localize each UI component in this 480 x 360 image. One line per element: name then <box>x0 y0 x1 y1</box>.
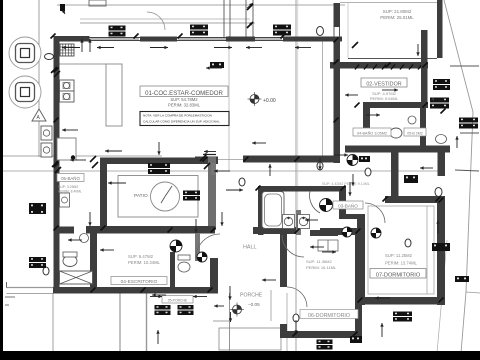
svg-text:SUP: 6.47M2: SUP: 6.47M2 <box>128 254 154 259</box>
svg-text:PATIO: PATIO <box>134 193 148 199</box>
svg-text:−0.05: −0.05 <box>248 302 260 307</box>
svg-text:04-ESCRITORIO: 04-ESCRITORIO <box>121 279 158 285</box>
svg-text:HALL: HALL <box>243 245 257 251</box>
svg-text:SUP: 21.80M2: SUP: 21.80M2 <box>383 9 412 14</box>
svg-text:NOTA: VER LA COMPRA DE PORLEMA: NOTA: VER LA COMPRA DE PORLEMASTICION <box>143 114 212 118</box>
svg-text:PERIM: 16.11ML: PERIM: 16.11ML <box>306 265 337 270</box>
svg-text:06-DORMITORIO: 06-DORMITORIO <box>308 313 350 319</box>
svg-text:05-BAÑO: 05-BAÑO <box>61 176 80 181</box>
svg-text:SUP: 11.36M2: SUP: 11.36M2 <box>306 259 332 264</box>
svg-text:PERIM: 13.74ML: PERIM: 13.74ML <box>385 261 418 266</box>
svg-text:07-DORMITORIO: 07-DORMITORIO <box>376 272 421 278</box>
svg-text:03-BAÑO: 03-BAÑO <box>338 202 358 208</box>
svg-text:PERIM: 8.40ML: PERIM: 8.40ML <box>58 190 82 194</box>
svg-text:SUP: 4.42M2 PERIM: 9.14ML: SUP: 4.42M2 PERIM: 9.14ML <box>322 182 370 186</box>
svg-text:PERIM: 10.34ML: PERIM: 10.34ML <box>128 260 161 265</box>
svg-text:CALCULAR COMO DIFERENCIA UN SU: CALCULAR COMO DIFERENCIA UN SUP. ADICION… <box>143 120 220 124</box>
svg-text:SUP: 11.25M2: SUP: 11.25M2 <box>385 253 413 258</box>
svg-text:05-PORCHE: 05-PORCHE <box>168 298 188 302</box>
svg-text:PORCHE: PORCHE <box>240 293 263 299</box>
svg-text:PERIM: 25.01ML: PERIM: 25.01ML <box>380 15 414 20</box>
svg-text:PERIM: 9.04ML: PERIM: 9.04ML <box>370 96 399 101</box>
svg-text:01-COC.ESTAR-COMEDOR: 01-COC.ESTAR-COMEDOR <box>145 90 223 97</box>
svg-text:+0.00: +0.00 <box>263 98 276 104</box>
svg-text:SUP: 3.25M2: SUP: 3.25M2 <box>58 185 78 189</box>
svg-text:02-VESTIDOR: 02-VESTIDOR <box>366 81 401 87</box>
svg-text:04-BAÑO 3.05M2: 04-BAÑO 3.05M2 <box>357 130 387 135</box>
svg-text:05-B 2M2: 05-B 2M2 <box>407 131 423 135</box>
svg-text:PERIM: 32.83ML: PERIM: 32.83ML <box>168 103 201 108</box>
svg-text:SUP: 54.78M2: SUP: 54.78M2 <box>170 97 198 102</box>
